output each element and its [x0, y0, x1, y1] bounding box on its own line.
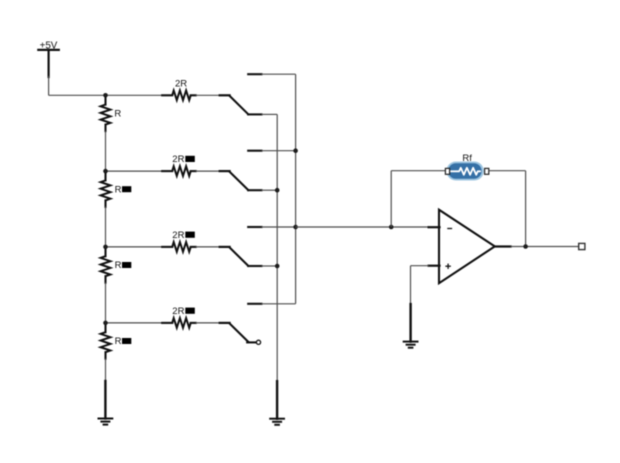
- feedback wire right: [489, 170, 526, 172]
- ground bus ground: [270, 381, 284, 425]
- node ladder row 3: [103, 245, 108, 250]
- node ground bus row3: [275, 264, 280, 269]
- node ladder row 2: [103, 169, 108, 174]
- op-amp U1: [429, 210, 495, 284]
- switch SW2: [220, 151, 262, 191]
- resistor Rf (selected, blue highlight): [445, 153, 488, 180]
- wire summing bus to op-amp inverting input: [296, 226, 429, 228]
- switch SW3: [220, 227, 262, 266]
- switch SW1: [220, 74, 262, 114]
- power +5V: [38, 40, 59, 95]
- resistor 2R row 1: [162, 78, 196, 100]
- svg-text:Rf: Rf: [462, 153, 472, 164]
- svg-text:R: R: [115, 184, 122, 195]
- resistor R row 1: [101, 98, 122, 131]
- node ladder row 1: [103, 93, 108, 98]
- svg-text:2R: 2R: [172, 230, 184, 241]
- node ground bus row2: [275, 188, 280, 193]
- wire ladder segment below row 2: [105, 207, 107, 247]
- svg-text:2R: 2R: [172, 306, 184, 317]
- svg-text:2R: 2R: [175, 78, 187, 89]
- wire upper contact row 2 to summing bus: [262, 150, 296, 152]
- wire 2R to switch pole row 3: [196, 246, 220, 248]
- wire op-amp noninverting input: [411, 265, 429, 267]
- resistor R row 2: [101, 174, 132, 207]
- feedback wire left: [390, 171, 392, 227]
- wire upper contact row 1 to summing bus: [262, 73, 296, 75]
- wire upper contact row 4 to summing bus: [262, 303, 296, 305]
- resistor R row 3: [101, 249, 132, 282]
- wire ladder node to 2R row 2: [106, 170, 163, 172]
- svg-text:R: R: [115, 336, 122, 347]
- wire ladder node to 2R row 4: [106, 322, 163, 324]
- resistor R row 4: [101, 325, 132, 358]
- ground bus (left rail): [276, 114, 278, 382]
- resistor 2R row 2: [162, 154, 196, 176]
- resistor 2R row 4: [162, 306, 196, 328]
- wire 2R to switch pole row 2: [196, 170, 220, 172]
- wire upper contact row 3 to summing bus: [262, 226, 296, 228]
- node summing bus row3: [293, 225, 298, 230]
- wire ladder segment below row 1: [105, 131, 107, 171]
- wire 2R to switch pole row 1: [196, 94, 220, 96]
- wire 2R to switch pole row 4: [196, 322, 220, 324]
- node feedback tap: [389, 225, 394, 230]
- svg-text:R: R: [114, 109, 121, 120]
- node ladder row 4: [103, 321, 108, 326]
- wire lower contact row 3 to ground bus: [262, 265, 278, 267]
- switch SW4: [220, 304, 262, 345]
- wire VCC to ladder top: [49, 94, 163, 96]
- wire lower contact row 2 to ground bus: [262, 189, 278, 191]
- wire ladder segment below row 3: [105, 282, 107, 323]
- wire ladder node to 2R row 3: [106, 246, 163, 248]
- node output feedback junction: [523, 244, 528, 249]
- wire lower contact row 1 to ground bus: [262, 113, 278, 115]
- op-amp output wire: [495, 245, 511, 247]
- ground op-amp + input: [404, 304, 418, 348]
- node summing bus row2: [293, 148, 298, 153]
- ground ladder bottom: [99, 381, 113, 425]
- svg-text:R: R: [115, 260, 122, 271]
- wire ladder segment below row 4: [105, 358, 107, 382]
- summing bus (right rail): [295, 74, 297, 304]
- resistor 2R row 3: [162, 230, 196, 252]
- svg-text:2R: 2R: [172, 154, 184, 165]
- output terminal: [579, 243, 585, 249]
